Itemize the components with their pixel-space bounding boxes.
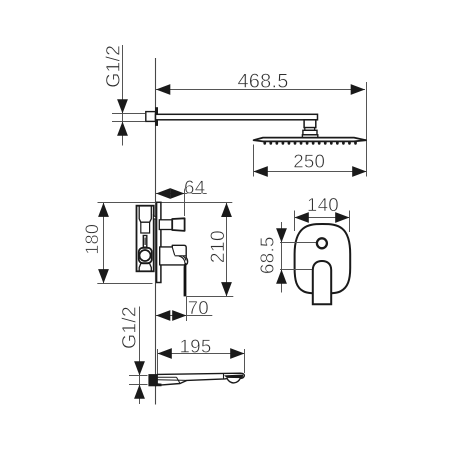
dimension 180 arrow up	[98, 203, 109, 217]
G1/2 bottom arrow down	[134, 361, 145, 375]
svg-text:G1/2: G1/2	[119, 306, 141, 349]
svg-text:210: 210	[207, 230, 229, 263]
body top fitting	[139, 207, 151, 223]
dimension 140 ext left	[294, 211, 296, 232]
shower head stem block 1	[304, 120, 316, 128]
dimension 70 right arrow	[172, 310, 186, 321]
dimension 210 arrow down	[221, 282, 232, 296]
shower head plate	[254, 138, 366, 142]
ext line right of 468.5 and 250	[366, 82, 368, 177]
shower head stem flange	[302, 135, 317, 138]
diverter inner horizontal	[175, 255, 187, 257]
wall line	[155, 58, 157, 405]
dimension 250 left arrow	[254, 166, 268, 177]
spout body	[157, 373, 244, 385]
dimension 250 right arrow	[352, 166, 366, 177]
front view trim plate	[295, 224, 351, 293]
dimension 70 left arrow	[156, 310, 170, 321]
68.5 leader to handle	[280, 269, 313, 271]
dimension 210 arrow up	[221, 203, 232, 217]
trim plate side view	[157, 202, 161, 282]
G1/2 top leader	[122, 45, 124, 146]
ext line left of 250	[253, 145, 255, 177]
handle grip side	[172, 218, 184, 231]
dimension 180 arrow down	[98, 269, 109, 283]
spout inner line 2	[157, 379, 187, 382]
diverter corner arcs	[179, 256, 185, 265]
G1/2 top ext line upper	[112, 113, 145, 115]
G1/2 top arrow up	[117, 122, 128, 136]
G1/2 top ext line lower	[112, 121, 145, 123]
svg-text:250: 250	[293, 150, 325, 171]
cartridge circle	[140, 250, 151, 261]
dimension 70 line	[156, 315, 212, 317]
shower head stem collar	[305, 128, 315, 131]
dimension 195 line	[158, 353, 245, 355]
dimension 140 ext right	[349, 211, 351, 233]
dimension 195 ext left	[157, 349, 159, 374]
dimension 180 line	[103, 203, 105, 284]
ext line right of 70	[186, 297, 188, 322]
dimension 468.5 line	[156, 89, 365, 91]
valve body top-right tab	[153, 215, 156, 219]
svg-text:140: 140	[307, 194, 339, 215]
svg-text:64: 64	[184, 176, 205, 197]
bottom ext line for 210/70	[187, 296, 234, 298]
spout inner line 1	[157, 376, 176, 378]
bottom ext line for 180	[97, 283, 152, 285]
handle lever down (side)	[184, 263, 187, 297]
G1/2 nipple behind wall	[146, 112, 156, 122]
dimension 68.5 arrow down	[276, 228, 287, 242]
mixer rough-in body	[137, 206, 154, 272]
cartridge stem	[143, 236, 147, 248]
spout under-wedge	[157, 383, 161, 386]
dimension 64 line	[156, 193, 207, 195]
svg-text:70: 70	[188, 297, 209, 318]
G1/2 bottom ext upper	[129, 375, 148, 377]
svg-text:180: 180	[82, 224, 102, 255]
spout inlet block	[148, 374, 157, 386]
diverter button front	[317, 238, 327, 248]
G1/2 bottom leader	[139, 307, 141, 405]
diverter inner diagonal	[172, 247, 174, 255]
dimension 195 ext right	[244, 349, 246, 373]
dimension 64 left arrow	[156, 188, 170, 199]
handle stem side	[159, 220, 172, 230]
dimension 140 right arrow	[335, 212, 349, 223]
G1/2 bottom arrow up	[134, 385, 145, 399]
svg-text:G1/2: G1/2	[103, 45, 125, 88]
dimension 468.5 right arrow	[351, 84, 365, 95]
body bottom fitting	[139, 264, 151, 271]
handle front	[313, 261, 331, 304]
G1/2 bottom ext lower	[129, 384, 148, 386]
dimension 210 line	[226, 203, 228, 297]
dimension 64 right arrow	[170, 188, 184, 199]
dimension 195 right arrow	[230, 348, 244, 359]
dimension 195 left arrow	[158, 348, 172, 359]
dimension 68.5 line	[281, 222, 283, 293]
ext line right of 64	[184, 189, 186, 217]
cartridge housing pad	[139, 248, 152, 263]
diverter body side	[160, 245, 188, 265]
dimension 250 line	[254, 171, 367, 173]
spout joint line	[223, 373, 225, 379]
dimension 140 left arrow	[295, 212, 309, 223]
dimension 68.5 arrow up	[276, 270, 287, 284]
68.5 leader to button	[280, 242, 317, 244]
shower arm	[156, 114, 318, 120]
svg-text:68.5: 68.5	[258, 236, 279, 274]
dimension 468.5 left arrow	[156, 84, 170, 95]
spout end-cap wedge	[224, 375, 243, 379]
G1/2 top arrow down	[117, 99, 128, 113]
top ext line y201.5	[98, 202, 233, 204]
body mid channel	[141, 222, 150, 233]
shower head stem block 2	[303, 130, 317, 135]
svg-text:195: 195	[180, 336, 212, 357]
dimension 140 line	[295, 217, 350, 219]
wall flange of arm	[155, 107, 158, 126]
svg-text:468.5: 468.5	[237, 70, 288, 92]
shower head nozzles	[263, 141, 356, 145]
